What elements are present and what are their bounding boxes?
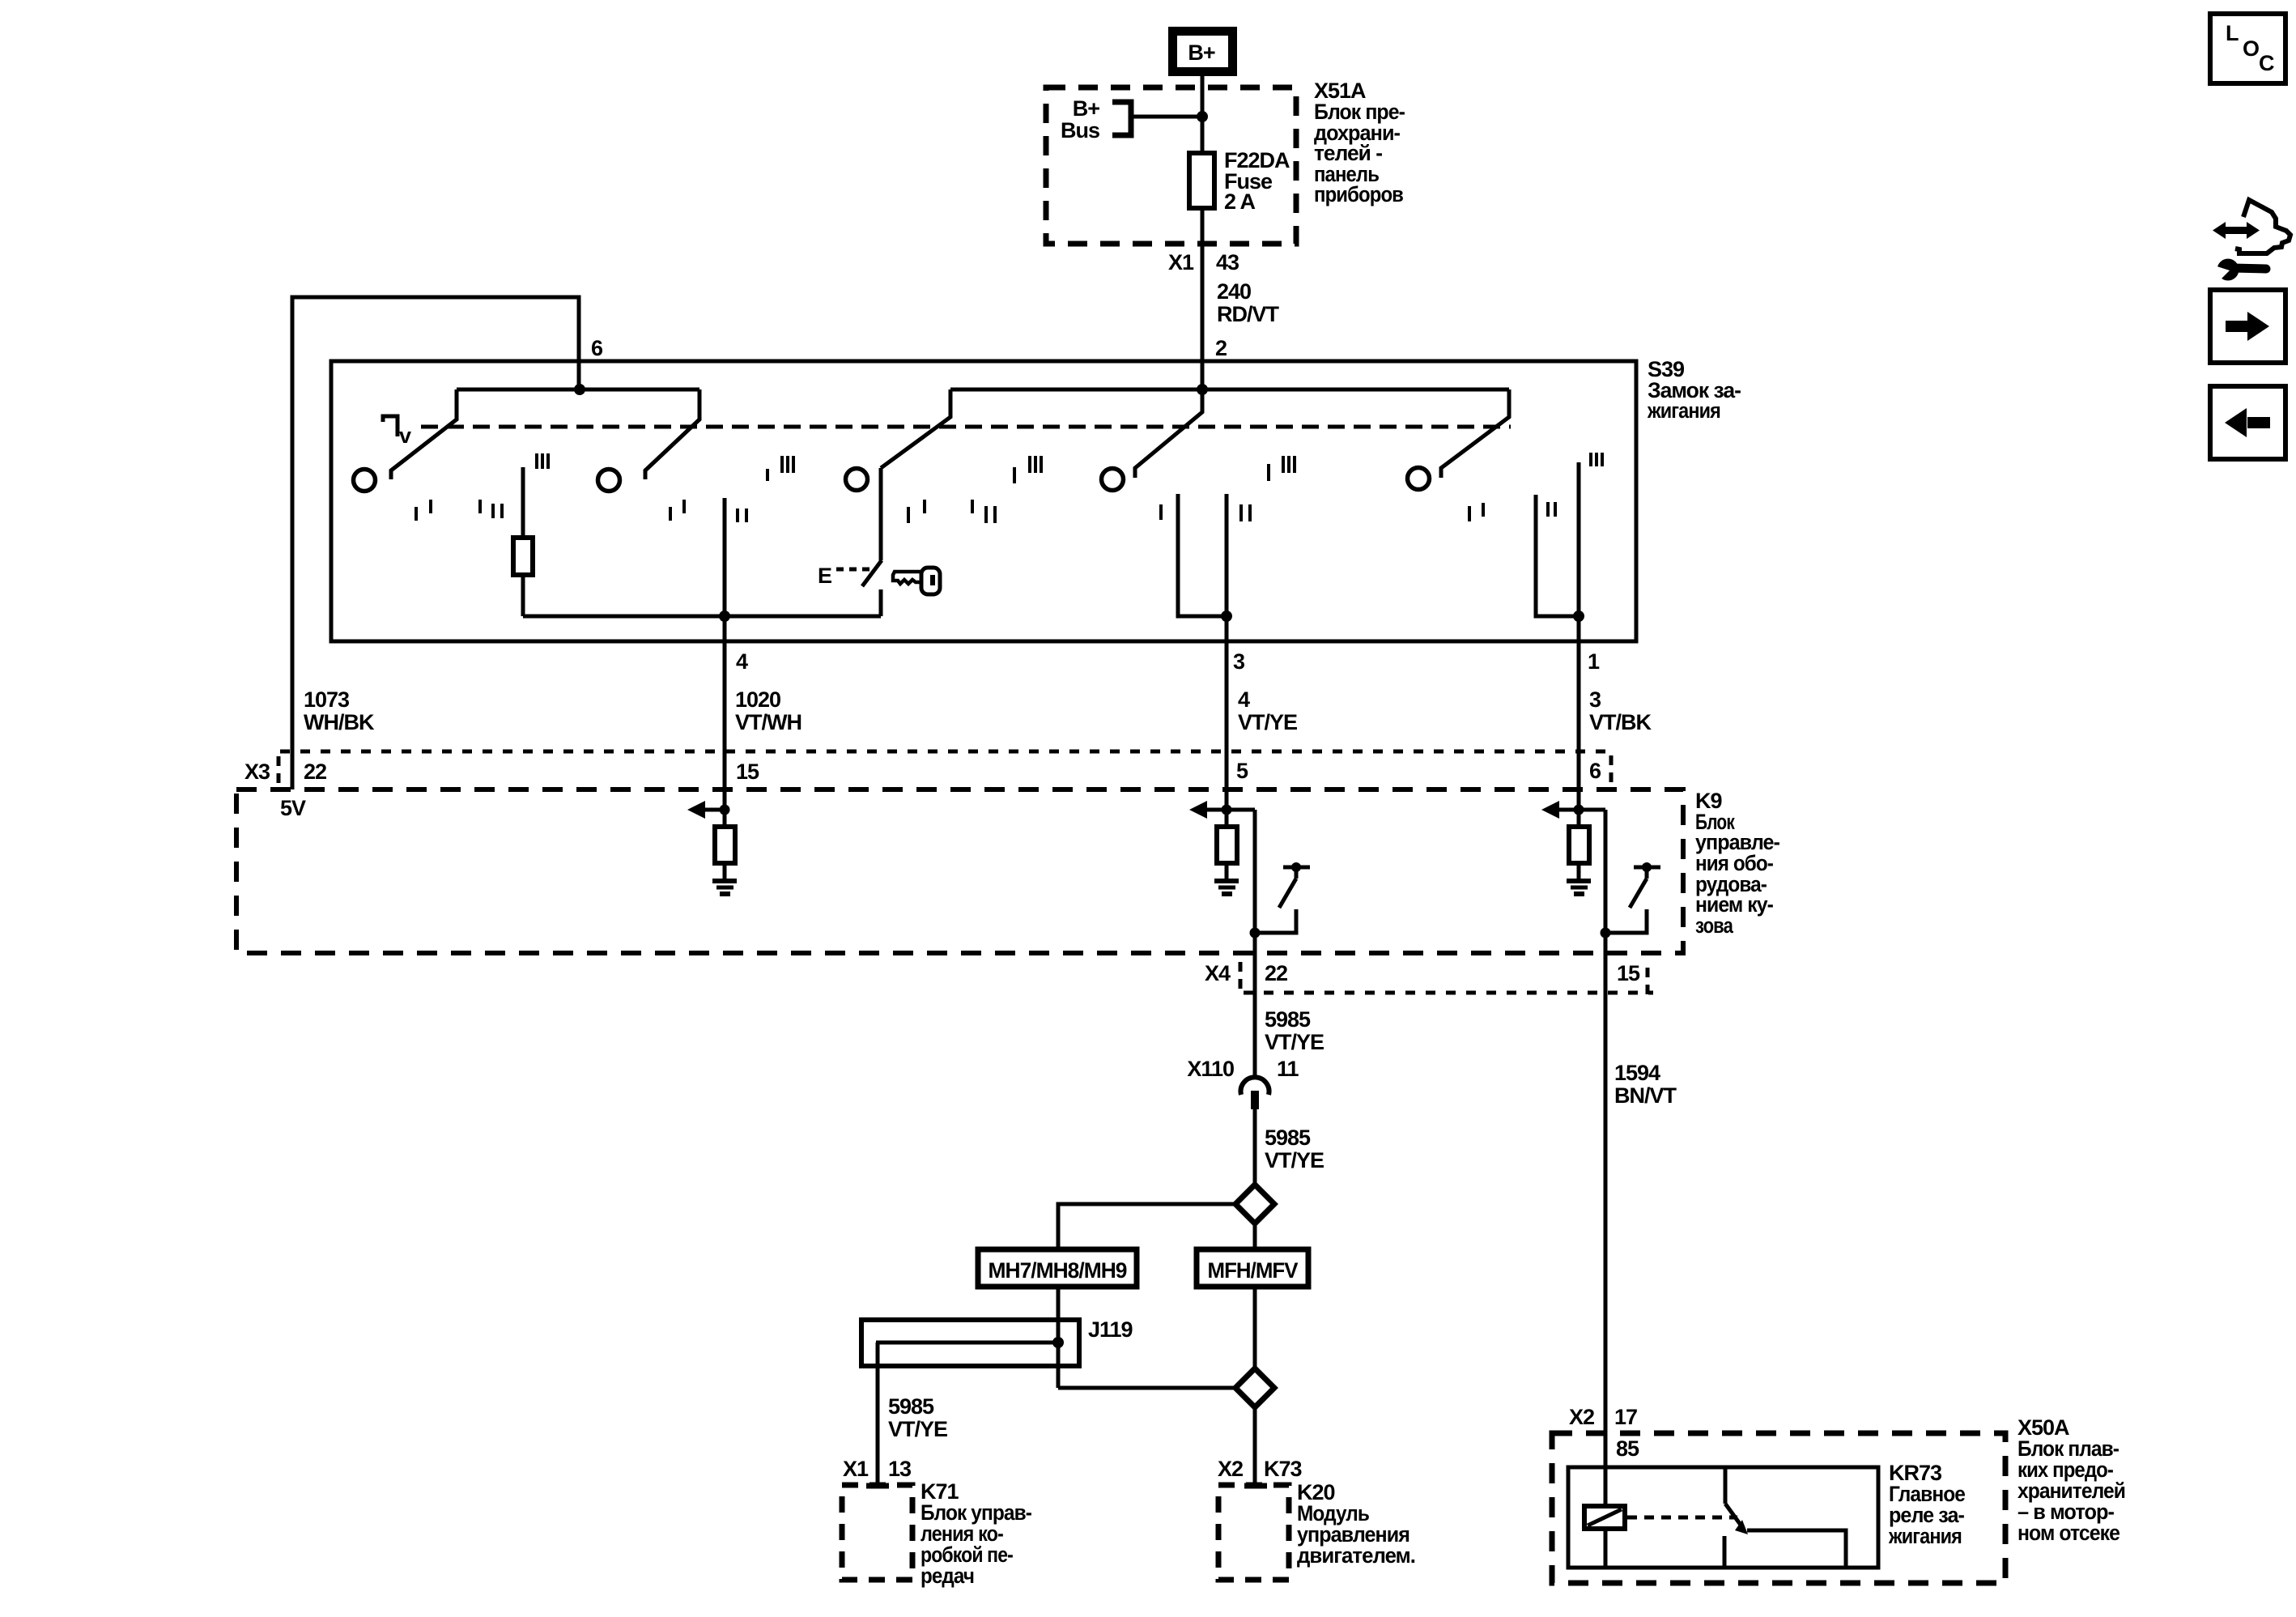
wire bus to main node [1133, 115, 1202, 119]
K9 pull-down resistor wire pin1 [1569, 827, 1589, 863]
wafer A common contact circle [354, 470, 376, 491]
svg-text:E: E [818, 564, 831, 588]
pin label X2 17 [1569, 1405, 1637, 1429]
wafer E common contact circle [1408, 468, 1430, 490]
svg-text:X4: X4 [1205, 961, 1231, 985]
svg-text:C: C [2259, 51, 2274, 75]
svg-text:13: 13 [888, 1457, 912, 1481]
svg-text:жигания: жигания [1888, 1524, 1962, 1548]
wafer D contact I wire [1178, 494, 1227, 616]
relay switch contact 30 [1724, 1467, 1728, 1504]
svg-text:2: 2 [1215, 336, 1227, 360]
body control module K9 dashed box [236, 789, 1683, 953]
wire node 6 branch: X3-22 up and over to S39 [292, 297, 579, 789]
fuse box X50A dashed box [1552, 1433, 2005, 1583]
svg-text:5985: 5985 [1265, 1007, 1311, 1032]
relay NO contact stub [1723, 1536, 1727, 1568]
junction bus/B+ [1197, 111, 1208, 122]
svg-text:VT/WH: VT/WH [735, 710, 801, 734]
junction wire6/bus [574, 384, 585, 395]
gear position box MH7/MH8/MH9 [978, 1249, 1137, 1287]
ground under resistor [712, 863, 737, 894]
junction switch output right [1601, 928, 1611, 938]
svg-text:редач: редач [921, 1564, 974, 1588]
wire MFH box to splice 2 [1253, 1287, 1257, 1368]
connector X3 dotted line [280, 750, 1611, 754]
wire label 5985 VT/YE [1265, 1007, 1324, 1054]
diagnostic wrench icon [2209, 259, 2266, 286]
svg-text:VT/YE: VT/YE [1265, 1030, 1324, 1054]
wire J119 to splice 2 [1058, 1386, 1235, 1390]
node B+ Bus label [1061, 96, 1099, 143]
wire label 5985 VT/YE [888, 1394, 947, 1441]
wire label 3 VT/BK [1589, 687, 1652, 734]
svg-text:RD/VT: RD/VT [1217, 302, 1280, 326]
K9 output branch wire down [1253, 810, 1257, 1075]
loc reference box [2210, 14, 2285, 83]
wire label 240 RD/VT [1217, 279, 1280, 326]
engine control module K20 dashed box [1218, 1485, 1289, 1580]
svg-text:22: 22 [304, 760, 326, 784]
K9 pull-down resistor wire 1020 [715, 827, 735, 863]
svg-text:WH/BK: WH/BK [304, 710, 375, 734]
svg-text:B+: B+ [1073, 96, 1099, 121]
svg-text:J119: J119 [1088, 1317, 1133, 1342]
svg-text:15: 15 [1617, 961, 1640, 985]
fuse block X51A dashed box [1046, 87, 1296, 244]
wire splice to MFH [1253, 1223, 1257, 1249]
wafer A position ticks I II III [415, 453, 550, 521]
junction E contacts [1573, 611, 1584, 622]
svg-text:VT/BK: VT/BK [1589, 710, 1652, 734]
K9 input arrow wire pin5 [1189, 801, 1255, 819]
K9 label [1695, 789, 1779, 938]
KR73 label [1888, 1461, 1966, 1548]
svg-text:43: 43 [1216, 250, 1239, 274]
nav arrow right box [2210, 290, 2285, 363]
svg-text:MFH/MFV: MFH/MFV [1208, 1258, 1299, 1283]
S39 internal supply bus right segment [950, 388, 1509, 392]
nav arrow left box [2210, 386, 2285, 459]
pin label X2 K73 [1218, 1457, 1303, 1481]
wire X110 to splice [1253, 1109, 1257, 1185]
X50A label [2018, 1415, 2125, 1545]
X110 pin [1251, 1091, 1259, 1109]
wire label 4 VT/YE [1238, 687, 1297, 734]
svg-text:1020: 1020 [735, 687, 780, 712]
K20 label [1297, 1480, 1415, 1568]
fuse value label [1224, 148, 1290, 214]
svg-text:B+: B+ [1188, 40, 1214, 65]
B+ Bus bracket [1112, 102, 1131, 135]
wafer A contact III resistor chain [521, 467, 525, 538]
svg-text:X110: X110 [1187, 1057, 1234, 1081]
X3 right tick [1609, 755, 1614, 784]
key position dashes [836, 568, 873, 572]
svg-text:BN/VT: BN/VT [1614, 1083, 1677, 1108]
wafer B contact II wire to pin 4 [723, 498, 727, 827]
K9 internal switch right [1605, 862, 1660, 933]
svg-text:приборов: приборов [1314, 182, 1403, 206]
junction rail/pin4 [719, 611, 730, 622]
X3 left tick [277, 756, 281, 784]
K9 input arrow wire pin1 [1541, 801, 1605, 819]
K9 output branch wire down right [1604, 810, 1608, 1506]
svg-text:1: 1 [1588, 649, 1600, 674]
wire label 5985 VT/YE [1265, 1126, 1324, 1172]
relay coil KR73 [1584, 1506, 1625, 1529]
svg-text:жигания: жигания [1647, 398, 1720, 423]
svg-text:1594: 1594 [1614, 1061, 1660, 1085]
wafer E contact III wire to pin 1 [1577, 462, 1581, 827]
svg-text:MH7/MH8/MH9: MH7/MH8/MH9 [989, 1258, 1128, 1283]
key switch blade [862, 560, 882, 586]
svg-text:17: 17 [1614, 1405, 1637, 1429]
relay linkage dashed [1627, 1516, 1737, 1520]
S39 internal rail [523, 615, 881, 619]
svg-text:22: 22 [1265, 961, 1287, 985]
svg-text:3: 3 [1233, 649, 1245, 674]
diagnostic car icon body [2235, 200, 2290, 253]
svg-text:85: 85 [1616, 1436, 1639, 1461]
svg-text:X1: X1 [843, 1457, 869, 1481]
svg-text:4: 4 [1238, 687, 1250, 712]
svg-text:240: 240 [1217, 279, 1251, 304]
wafer D common contact circle [1102, 469, 1124, 491]
junction D contacts [1221, 611, 1232, 622]
svg-text:5V: 5V [280, 796, 306, 820]
wire label 1073 WH/BK [304, 687, 375, 734]
splice diamond upper [1235, 1185, 1274, 1223]
diagnostic car icon double arrow [2213, 222, 2260, 239]
inline connector X110 socket [1240, 1077, 1269, 1095]
pin label X1 13 [843, 1457, 912, 1481]
relay switch blade [1725, 1504, 1742, 1527]
wafer B blade [645, 389, 699, 479]
svg-text:X3: X3 [244, 760, 270, 784]
svg-text:O: O [2243, 36, 2259, 61]
wafer E blade [1441, 389, 1509, 478]
wire MH7 box to J119 [1057, 1287, 1061, 1388]
K20 pin stub bar [1244, 1483, 1267, 1489]
relay blade arrowhead [1735, 1520, 1748, 1534]
wafer E position ticks [1468, 453, 1604, 521]
wire fuse to S39 pin 2 (240 RD/VT) [1201, 208, 1205, 389]
svg-text:3: 3 [1589, 687, 1601, 712]
svg-text:v: v [399, 423, 411, 448]
junction wire2/bus [1197, 384, 1208, 395]
S39 mechanical linkage dashed line [421, 425, 1511, 429]
pin label X1 43 [1168, 250, 1239, 274]
ignition main relay KR73 box [1568, 1467, 1878, 1568]
svg-text:X2: X2 [1218, 1457, 1243, 1481]
ground under resistor [1214, 863, 1239, 894]
wire splice 2 to K20 [1253, 1407, 1257, 1486]
K9 internal switch left [1255, 862, 1310, 933]
wafer C key switch chain [879, 468, 883, 560]
svg-text:K73: K73 [1264, 1457, 1303, 1481]
wafer C blade [881, 389, 950, 468]
svg-text:двигателем.: двигателем. [1297, 1543, 1415, 1568]
svg-text:Bus: Bus [1061, 118, 1099, 143]
wire B+ to fuse [1201, 76, 1205, 153]
fuse F22DA 2A [1189, 153, 1214, 208]
svg-text:X2: X2 [1569, 1405, 1594, 1429]
svg-text:5985: 5985 [888, 1394, 934, 1419]
wire resistor to rail [521, 575, 525, 616]
svg-text:6: 6 [591, 336, 603, 360]
wire coil to box bottom [1604, 1529, 1608, 1568]
svg-text:ном отсеке: ном отсеке [2018, 1521, 2120, 1545]
transmission control module K71 dashed box [842, 1485, 912, 1580]
svg-text:L: L [2226, 21, 2239, 45]
gear position box MFH/MFV [1197, 1249, 1308, 1287]
wafer B position ticks [669, 456, 795, 522]
switch wafer A blade [391, 389, 457, 479]
K9 pull-down resistor wire pin5 [1217, 827, 1237, 863]
splice diamond lower [1235, 1368, 1274, 1407]
wire label 1594 BN/VT [1614, 1061, 1677, 1108]
battery feed B+ terminal box [1168, 27, 1237, 76]
svg-text:X1: X1 [1168, 250, 1194, 274]
lock position symbol [383, 416, 398, 436]
wire label 1020 VT/WH [735, 687, 801, 734]
ground under resistor [1567, 863, 1591, 894]
svg-text:15: 15 [736, 760, 759, 784]
resistor in S39 [513, 538, 533, 575]
K71 pin stub bar [866, 1483, 889, 1489]
svg-text:VT/YE: VT/YE [1238, 710, 1297, 734]
S39 label [1647, 357, 1741, 423]
svg-text:1073: 1073 [304, 687, 350, 712]
splice pack J119 [861, 1320, 1079, 1366]
svg-text:2 A: 2 A [1224, 189, 1256, 214]
svg-text:4: 4 [736, 649, 748, 674]
wire splice to MH7 branch [1058, 1204, 1235, 1249]
wafer C position ticks [907, 456, 1043, 523]
ignition switch S39 box [331, 361, 1636, 641]
S39 internal supply bus left segment [457, 388, 699, 392]
wire J119 to K71 [876, 1343, 880, 1486]
svg-text:5: 5 [1236, 759, 1248, 783]
key switch lower contact [879, 589, 883, 616]
svg-text:6: 6 [1589, 759, 1601, 783]
wafer D position ticks [1159, 456, 1296, 521]
wafer B common contact circle [598, 470, 620, 491]
svg-text:зова: зова [1695, 913, 1734, 938]
connector X4 dotted line [1244, 991, 1653, 995]
X4 right tick [1646, 968, 1650, 995]
key icon [893, 568, 940, 594]
svg-text:VT/YE: VT/YE [1265, 1148, 1324, 1172]
wafer D contact II wire to pin 3 [1225, 494, 1229, 827]
svg-text:VT/YE: VT/YE [888, 1417, 947, 1441]
svg-text:5985: 5985 [1265, 1126, 1311, 1150]
wafer C common contact circle [846, 469, 868, 491]
K71 label [921, 1479, 1031, 1588]
K9 input arrow wire 1020 [687, 801, 730, 819]
X51A label [1314, 79, 1405, 206]
relay output wire [1747, 1530, 1846, 1568]
svg-text:11: 11 [1277, 1057, 1299, 1081]
X4 left tick [1239, 962, 1243, 989]
wafer D blade [1135, 389, 1202, 478]
junction switch output [1250, 928, 1261, 938]
wafer E contact II wire [1536, 495, 1579, 616]
